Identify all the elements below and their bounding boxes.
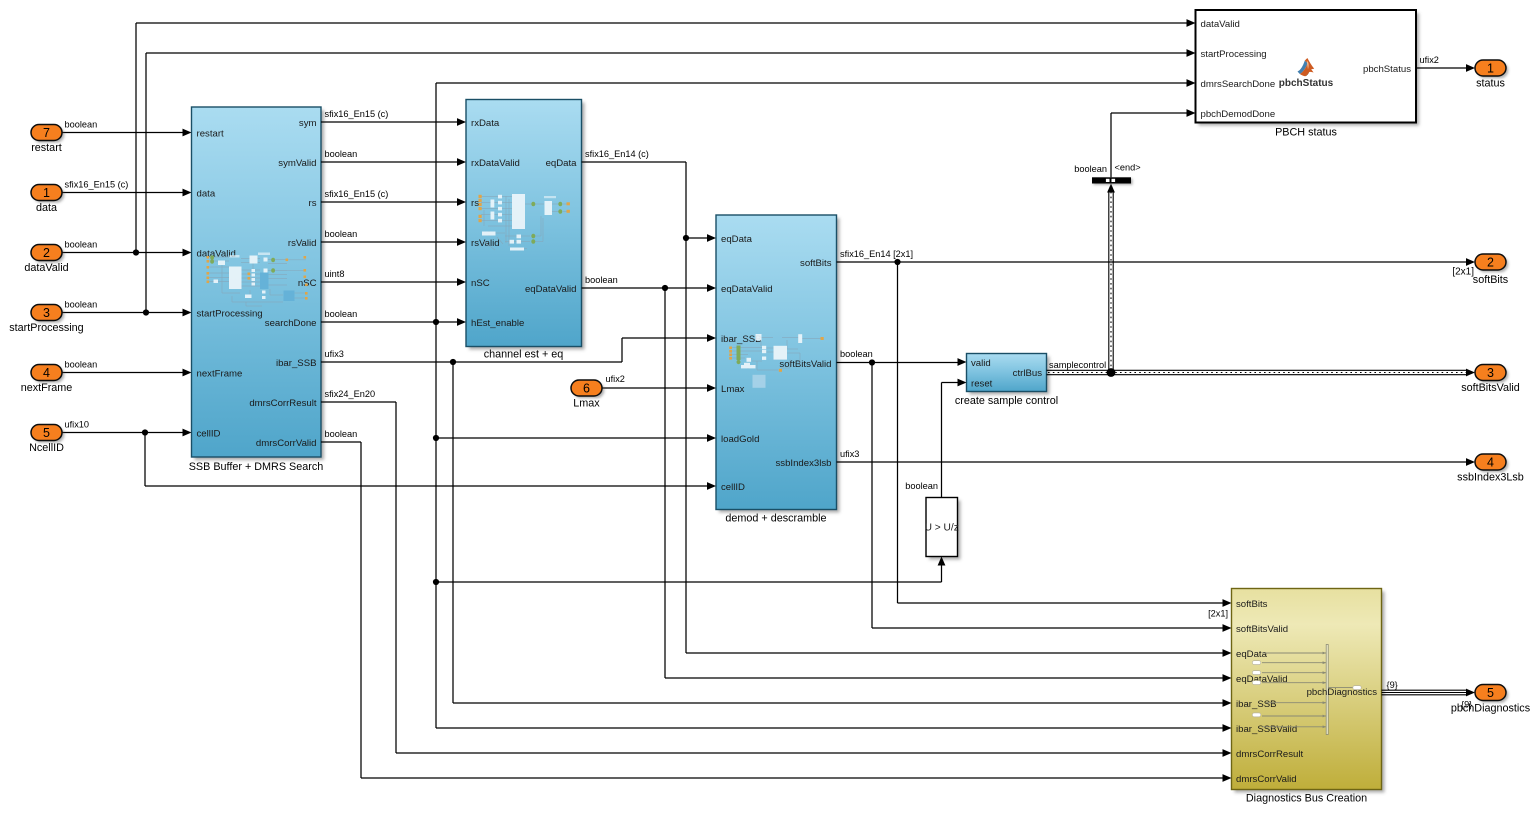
wire searchDone to demod.loadGold bbox=[436, 434, 716, 442]
subsystem block channel est + eq bbox=[466, 100, 585, 350]
wire pbchStatus to outport status bbox=[1416, 64, 1475, 72]
bus junction samplecontrol bbox=[1107, 368, 1116, 377]
wire searchDone to unit delay input bbox=[436, 557, 945, 583]
inport 4 nextFrame bbox=[31, 365, 64, 383]
svg-text:softBitsValid: softBitsValid bbox=[1236, 624, 1288, 635]
svg-text:ssbIndex3Lsb: ssbIndex3Lsb bbox=[1457, 472, 1524, 484]
svg-text:dmrsCorrValid: dmrsCorrValid bbox=[1236, 774, 1297, 785]
wire restart: inport to SSB.restart bbox=[62, 129, 192, 137]
svg-text:sfix16_En14 [2x1]: sfix16_En14 [2x1] bbox=[840, 249, 913, 259]
outport 1 status bbox=[1475, 60, 1508, 78]
svg-text:data: data bbox=[197, 188, 216, 199]
svg-text:boolean: boolean bbox=[1074, 164, 1107, 174]
svg-text:startProcessing: startProcessing bbox=[1201, 49, 1267, 60]
svg-text:boolean: boolean bbox=[325, 309, 358, 319]
svg-text:boolean: boolean bbox=[65, 240, 98, 250]
thumbnail contents of demod + descramble bbox=[729, 334, 824, 388]
svg-text:boolean: boolean bbox=[325, 429, 358, 439]
svg-text:rsValid: rsValid bbox=[471, 238, 500, 249]
svg-text:dmrsCorrResult: dmrsCorrResult bbox=[1236, 749, 1304, 760]
wire NcellID: inport to SSB.cellID bbox=[62, 429, 192, 437]
svg-text:boolean: boolean bbox=[325, 149, 358, 159]
wire softBits: demod.softBits to outport softBits bbox=[837, 258, 1476, 266]
wire eqData to Diagnostics.eqData bbox=[686, 238, 1232, 657]
svg-text:boolean: boolean bbox=[585, 275, 618, 285]
svg-text:dmrsSearchDone: dmrsSearchDone bbox=[1201, 79, 1276, 90]
junction dataValid branch bbox=[133, 249, 139, 255]
wire dataValid: inport to SSB.dataValid bbox=[62, 249, 192, 257]
svg-text:ibar_SSB: ibar_SSB bbox=[1236, 699, 1277, 710]
svg-text:softBitsValid: softBitsValid bbox=[1461, 382, 1520, 394]
wire softBitsValid to Diagnostics.softBitsValid bbox=[872, 363, 1232, 632]
thumbnail contents of Diagnostics Bus Creation bbox=[1252, 645, 1361, 735]
svg-text:Lmax: Lmax bbox=[573, 398, 600, 410]
svg-text:{9}: {9} bbox=[1387, 680, 1398, 690]
inport 1 data bbox=[31, 185, 64, 203]
svg-text:boolean: boolean bbox=[65, 360, 98, 370]
svg-text:dataValid: dataValid bbox=[24, 262, 68, 274]
junction eqData branch bbox=[683, 235, 689, 241]
svg-text:boolean: boolean bbox=[65, 120, 98, 130]
svg-text:PBCH status: PBCH status bbox=[1275, 127, 1337, 139]
svg-text:startProcessing: startProcessing bbox=[197, 308, 263, 319]
wire softBitsValid: demod.softBitsValid to create sample control valid bbox=[837, 358, 967, 366]
inport 6 Lmax bbox=[571, 380, 604, 398]
svg-text:[2x1]: [2x1] bbox=[1208, 609, 1228, 619]
svg-text:uint8: uint8 bbox=[325, 269, 345, 279]
junction startProcessing branch bbox=[143, 309, 149, 315]
svg-text:sym: sym bbox=[299, 118, 317, 129]
svg-text:eqData: eqData bbox=[1236, 649, 1268, 660]
svg-text:NcellID: NcellID bbox=[29, 442, 64, 454]
wire dmrsCorrValid to Diagnostics.dmrsCorrValid bbox=[321, 442, 1232, 782]
svg-text:sfix16_En15 (c): sfix16_En15 (c) bbox=[325, 109, 389, 119]
svg-text:2: 2 bbox=[43, 246, 50, 260]
wire searchDone to PBCH status dmrsSearchDone bbox=[436, 79, 1196, 322]
junction searchDone to loadGold bbox=[433, 435, 439, 441]
svg-text:[2x1]: [2x1] bbox=[1452, 267, 1474, 278]
svg-text:eqData: eqData bbox=[721, 234, 753, 245]
svg-text:create sample control: create sample control bbox=[955, 395, 1058, 407]
svg-text:1: 1 bbox=[43, 186, 50, 200]
MATLAB logo icon bbox=[1298, 58, 1315, 76]
svg-text:cellID: cellID bbox=[721, 482, 745, 493]
wire ibar_SSB to Diagnostics.ibar_SSB bbox=[453, 362, 1232, 707]
svg-text:ufix2: ufix2 bbox=[1420, 55, 1439, 65]
svg-text:sfix16_En15 (c): sfix16_En15 (c) bbox=[65, 180, 129, 190]
svg-text:demod + descramble: demod + descramble bbox=[725, 513, 826, 525]
subsystem block SSB Buffer + DMRS Search bbox=[192, 107, 325, 460]
junction cellID branch bbox=[142, 429, 148, 435]
svg-text:cellID: cellID bbox=[197, 428, 221, 439]
svg-text:dataValid: dataValid bbox=[197, 248, 236, 259]
svg-text:sfix16_En14 (c): sfix16_En14 (c) bbox=[585, 149, 649, 159]
svg-text:restart: restart bbox=[197, 128, 225, 139]
svg-text:dmrsCorrValid: dmrsCorrValid bbox=[256, 438, 317, 449]
wire eqDataValid: channel.eqDataValid to demod.eqDataValid bbox=[582, 284, 717, 292]
bus creator block Diagnostics Bus Creation bbox=[1232, 589, 1385, 793]
svg-text:valid: valid bbox=[971, 358, 991, 369]
wire startProcessing: inport to SSB.startProcessing bbox=[62, 309, 192, 317]
svg-text:nSC: nSC bbox=[298, 278, 317, 289]
svg-text:pbchDiagnostics: pbchDiagnostics bbox=[1307, 687, 1378, 698]
wire unit delay output to create sample control reset bbox=[942, 379, 967, 498]
svg-text:<end>: <end> bbox=[1115, 163, 1141, 173]
outport 3 softBitsValid bbox=[1475, 365, 1508, 383]
svg-text:rs: rs bbox=[309, 198, 317, 209]
inport 7 restart bbox=[31, 125, 64, 143]
wire searchDone to Diagnostics.ibar_SSBValid bbox=[436, 724, 1232, 732]
svg-text:ufix2: ufix2 bbox=[606, 374, 625, 384]
svg-text:loadGold: loadGold bbox=[721, 434, 759, 445]
svg-text:reset: reset bbox=[971, 378, 993, 389]
wire dataValid to PBCH status dataValid bbox=[136, 19, 1196, 252]
svg-text:ufix3: ufix3 bbox=[840, 449, 859, 459]
svg-text:7: 7 bbox=[43, 126, 50, 140]
junction softBits branch bbox=[894, 259, 900, 265]
svg-text:Diagnostics Bus Creation: Diagnostics Bus Creation bbox=[1246, 793, 1367, 805]
wire symValid: SSB.symValid to channel.rxDataValid bbox=[321, 158, 466, 166]
junction searchDone at x436 bbox=[433, 319, 439, 325]
svg-text:5: 5 bbox=[1487, 686, 1494, 700]
svg-text:boolean: boolean bbox=[905, 481, 938, 491]
junction ibar_SSB branch bbox=[450, 359, 456, 365]
svg-text:channel est + eq: channel est + eq bbox=[484, 349, 564, 361]
svg-text:5: 5 bbox=[43, 426, 50, 440]
outport 2 softBits bbox=[1475, 254, 1508, 272]
svg-text:Lmax: Lmax bbox=[721, 384, 745, 395]
subsystem block demod + descramble bbox=[716, 215, 840, 513]
svg-text:sfix24_En20: sfix24_En20 bbox=[325, 389, 376, 399]
outport 4 ssbIndex3Lsb bbox=[1475, 454, 1508, 472]
bus wire samplecontrol: ctrlBus output to outport softBitsValid bbox=[1047, 369, 1476, 377]
svg-text:ufix3: ufix3 bbox=[325, 349, 344, 359]
svg-text:startProcessing: startProcessing bbox=[9, 322, 83, 334]
inport 3 startProcessing bbox=[31, 305, 64, 323]
wire nextFrame: inport to SSB.nextFrame bbox=[62, 369, 192, 377]
svg-text:U > U/z: U > U/z bbox=[925, 523, 959, 534]
svg-text:4: 4 bbox=[1487, 455, 1494, 469]
svg-text:2: 2 bbox=[1487, 255, 1494, 269]
unit-delay block U > U/z bbox=[925, 498, 961, 560]
inport 5 NcellID bbox=[31, 425, 64, 443]
svg-text:eqData: eqData bbox=[546, 158, 578, 169]
wire startProcessing to PBCH status startProcessing bbox=[146, 49, 1196, 312]
svg-text:softBits: softBits bbox=[1236, 599, 1268, 610]
svg-text:6: 6 bbox=[583, 381, 590, 395]
svg-text:ufix10: ufix10 bbox=[65, 420, 90, 430]
thumbnail contents of channel est + eq bbox=[479, 194, 570, 251]
svg-text:ibar_SSB: ibar_SSB bbox=[721, 334, 762, 345]
svg-text:softBits: softBits bbox=[1473, 274, 1509, 286]
svg-text:pbchStatus: pbchStatus bbox=[1279, 78, 1334, 89]
wire rsValid: SSB.rsValid to channel.rsValid bbox=[321, 238, 466, 246]
thumbnail contents of SSB Buffer + DMRS Search bbox=[207, 253, 308, 307]
svg-text:boolean: boolean bbox=[840, 349, 873, 359]
wire ibar_SSB: SSB.ibar_SSB to demod.ibar_SSB bbox=[321, 334, 716, 362]
svg-text:ctrlBus: ctrlBus bbox=[1013, 368, 1043, 379]
junction softBitsValid branch bbox=[869, 359, 875, 365]
wire eqData: channel.eqData to demod.eqData bbox=[582, 162, 717, 242]
svg-text:3: 3 bbox=[1487, 366, 1494, 380]
svg-text:eqDataValid: eqDataValid bbox=[721, 284, 773, 295]
wire cellID to demod.cellID bbox=[145, 433, 716, 490]
svg-text:pbchStatus: pbchStatus bbox=[1363, 64, 1411, 75]
wire selected boolean to PBCH status pbchDemodDone bbox=[1111, 109, 1196, 177]
wire eqDataValid to Diagnostics.eqDataValid bbox=[665, 288, 1232, 682]
svg-text:nSC: nSC bbox=[471, 278, 490, 289]
svg-text:ssbIndex3lsb: ssbIndex3lsb bbox=[776, 458, 832, 469]
wire searchDone: SSB.searchDone to channel.hEst_enable bbox=[321, 318, 466, 326]
svg-text:symValid: symValid bbox=[278, 158, 316, 169]
junction searchDone to unit delay bbox=[433, 579, 439, 585]
wire data: inport to SSB.data bbox=[62, 189, 192, 197]
svg-text:pbchDemodDone: pbchDemodDone bbox=[1201, 109, 1276, 120]
bus wire pbchDiagnostics to outport bbox=[1382, 689, 1476, 697]
svg-text:eqDataValid: eqDataValid bbox=[525, 284, 577, 295]
svg-text:pbchDiagnostics: pbchDiagnostics bbox=[1451, 703, 1531, 715]
wire searchDone down-branch bbox=[435, 322, 437, 728]
svg-text:SSB Buffer + DMRS Search: SSB Buffer + DMRS Search bbox=[189, 461, 324, 473]
bus selector tap bbox=[1092, 177, 1133, 185]
svg-text:softBits: softBits bbox=[800, 258, 832, 269]
svg-text:ibar_SSBValid: ibar_SSBValid bbox=[1236, 724, 1297, 735]
svg-text:sfix16_En15 (c): sfix16_En15 (c) bbox=[325, 189, 389, 199]
MATLAB function block PBCH status bbox=[1196, 10, 1420, 126]
svg-text:searchDone: searchDone bbox=[265, 318, 317, 329]
wire Lmax: inport to demod.Lmax bbox=[602, 384, 716, 392]
svg-text:dmrsCorrResult: dmrsCorrResult bbox=[249, 398, 317, 409]
svg-text:hEst_enable: hEst_enable bbox=[471, 318, 524, 329]
svg-text:samplecontrol: samplecontrol bbox=[1049, 360, 1106, 370]
svg-text:data: data bbox=[36, 202, 57, 214]
svg-text:4: 4 bbox=[43, 366, 50, 380]
svg-text:rxDataValid: rxDataValid bbox=[471, 158, 520, 169]
outport 5 pbchDiagnostics bbox=[1475, 685, 1508, 703]
wire rs: SSB.rs to channel.rs bbox=[321, 198, 466, 206]
svg-text:ibar_SSB: ibar_SSB bbox=[276, 358, 317, 369]
bus wire samplecontrol up to bus selector bbox=[1107, 184, 1115, 373]
wire sym: SSB.sym to channel.rxData bbox=[321, 118, 466, 126]
wire ssbIndex3lsb: demod to outport ssbIndex3Lsb bbox=[837, 458, 1476, 466]
subsystem block create sample control bbox=[967, 354, 1050, 395]
svg-text:boolean: boolean bbox=[65, 300, 98, 310]
svg-text:rsValid: rsValid bbox=[288, 238, 317, 249]
junction eqDataValid branch bbox=[662, 285, 668, 291]
svg-text:nextFrame: nextFrame bbox=[21, 382, 73, 394]
svg-text:status: status bbox=[1476, 78, 1505, 90]
svg-text:dataValid: dataValid bbox=[1201, 19, 1240, 30]
svg-text:restart: restart bbox=[31, 142, 62, 154]
wire nSC: SSB.nSC to channel.nSC bbox=[321, 278, 466, 286]
wire dmrsCorrResult to Diagnostics.dmrsCorrResult bbox=[321, 402, 1232, 757]
svg-text:rs: rs bbox=[471, 198, 479, 209]
svg-text:1: 1 bbox=[1487, 61, 1494, 75]
svg-text:boolean: boolean bbox=[325, 229, 358, 239]
svg-text:3: 3 bbox=[43, 306, 50, 320]
inport 2 dataValid bbox=[31, 245, 64, 263]
svg-text:rxData: rxData bbox=[471, 118, 500, 129]
wire softBits to Diagnostics.softBits bbox=[898, 262, 1232, 607]
svg-text:nextFrame: nextFrame bbox=[197, 368, 243, 379]
